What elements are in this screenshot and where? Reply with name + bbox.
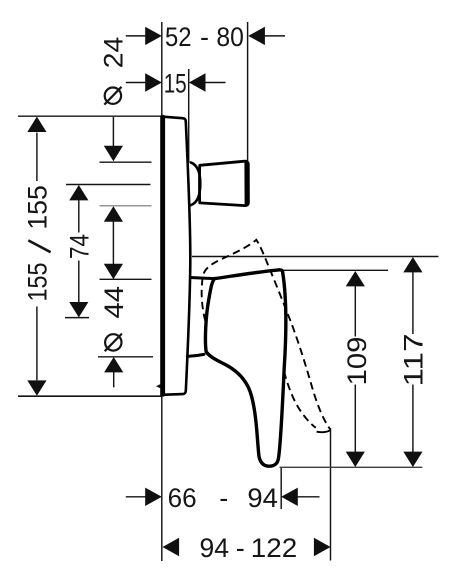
svg-text:117: 117 bbox=[399, 334, 429, 387]
dimension 117 bottom arrow bbox=[412, 385, 414, 453]
knob stem arc bbox=[191, 163, 201, 206]
svg-text:155: 155 bbox=[23, 263, 53, 302]
dimension 109 bottom arrow bbox=[354, 385, 356, 453]
lever stem bottom edge bbox=[187, 354, 204, 356]
dimension 155/155 top arrow bbox=[27, 117, 46, 132]
escutcheon plate body bbox=[162, 117, 191, 395]
svg-text:74: 74 bbox=[65, 234, 95, 259]
knob body bbox=[200, 161, 249, 205]
dimension 15 left arrow bbox=[126, 82, 147, 84]
extension line lever stem top (Ø44) bbox=[100, 278, 152, 280]
svg-text:-: - bbox=[236, 533, 245, 563]
extension tick knob top (Ø24) bbox=[100, 161, 152, 163]
escutcheon plate left edge (thick) bbox=[161, 117, 165, 395]
dimension Ø24 top arrow bbox=[112, 117, 114, 147]
svg-text:94: 94 bbox=[200, 533, 230, 563]
svg-text:66: 66 bbox=[168, 483, 197, 513]
extension line lever top (117 dim) bbox=[192, 256, 439, 258]
dimension Ø44 bottom arrow bbox=[104, 357, 123, 372]
dimension 15 right arrow bbox=[189, 73, 206, 91]
extension line V3 (plate front face) bbox=[188, 69, 190, 162]
extension line plate top (155 dim) bbox=[18, 115, 162, 117]
extension line lever corner (109 dim) bbox=[267, 269, 389, 271]
extension line V2 (knob front face) bbox=[247, 22, 249, 161]
svg-text:24: 24 bbox=[99, 37, 129, 69]
lever stem top edge bbox=[191, 278, 215, 279]
knob front face (thick) bbox=[244, 164, 249, 204]
dimension 52-80 left arrow bbox=[126, 35, 147, 37]
dimension 155/155 bottom arrow bbox=[36, 307, 38, 381]
svg-text:155: 155 bbox=[23, 185, 53, 230]
extension line plate bottom (155 dim) bbox=[18, 395, 162, 397]
extension line V1 top (wall plane above plate) bbox=[161, 22, 163, 116]
dashed lever inner edge bbox=[284, 372, 316, 428]
dimension 109 top arrow bbox=[346, 271, 365, 286]
dimension 117 top arrow bbox=[403, 257, 422, 272]
dimension 74 bottom arrow bbox=[78, 261, 80, 303]
dimension 66-94 right arrow bbox=[281, 488, 298, 506]
svg-text:-: - bbox=[200, 22, 209, 52]
extension line V1 bottom (wall plane below plate) bbox=[161, 396, 163, 561]
dimension 94-122 right arrow bbox=[314, 538, 331, 556]
extension line solid lever tip bbox=[280, 467, 282, 509]
dimension Ø24 bottom arrow / Ø44 top arrow shared line bbox=[104, 206, 123, 221]
svg-text:94: 94 bbox=[247, 483, 278, 513]
svg-text:44: 44 bbox=[99, 286, 129, 319]
svg-text:52: 52 bbox=[165, 22, 192, 52]
extension line knob bottom (Ø24) bbox=[100, 205, 152, 207]
svg-text:-: - bbox=[219, 483, 228, 513]
dimension 74 top arrow bbox=[69, 185, 88, 200]
extension line dashed lever tip bbox=[330, 428, 332, 561]
extension line knob axis (74 dim) bbox=[66, 184, 151, 186]
screw nub on plate edge bbox=[156, 384, 161, 389]
dashed lever tip hook bbox=[317, 430, 330, 432]
dimension 52-80 right arrow bbox=[248, 27, 265, 45]
dimension Ø24 label bbox=[105, 88, 121, 104]
svg-text:15: 15 bbox=[164, 68, 187, 98]
svg-text:80: 80 bbox=[216, 22, 244, 52]
svg-text:122: 122 bbox=[251, 533, 298, 563]
lever handle grip bbox=[205, 270, 285, 466]
dashed lever arc (raised position outline) bbox=[202, 240, 330, 430]
extension line lever stem bottom (Ø44) bbox=[98, 356, 153, 358]
extension line lever bottom (109/117 dim) bbox=[280, 466, 423, 468]
dimension 94-122 left arrow bbox=[163, 538, 180, 556]
svg-text:109: 109 bbox=[342, 337, 372, 386]
dimension 66-94 left arrow bbox=[126, 496, 147, 498]
extension tick 74 dim bottom bbox=[65, 317, 89, 319]
